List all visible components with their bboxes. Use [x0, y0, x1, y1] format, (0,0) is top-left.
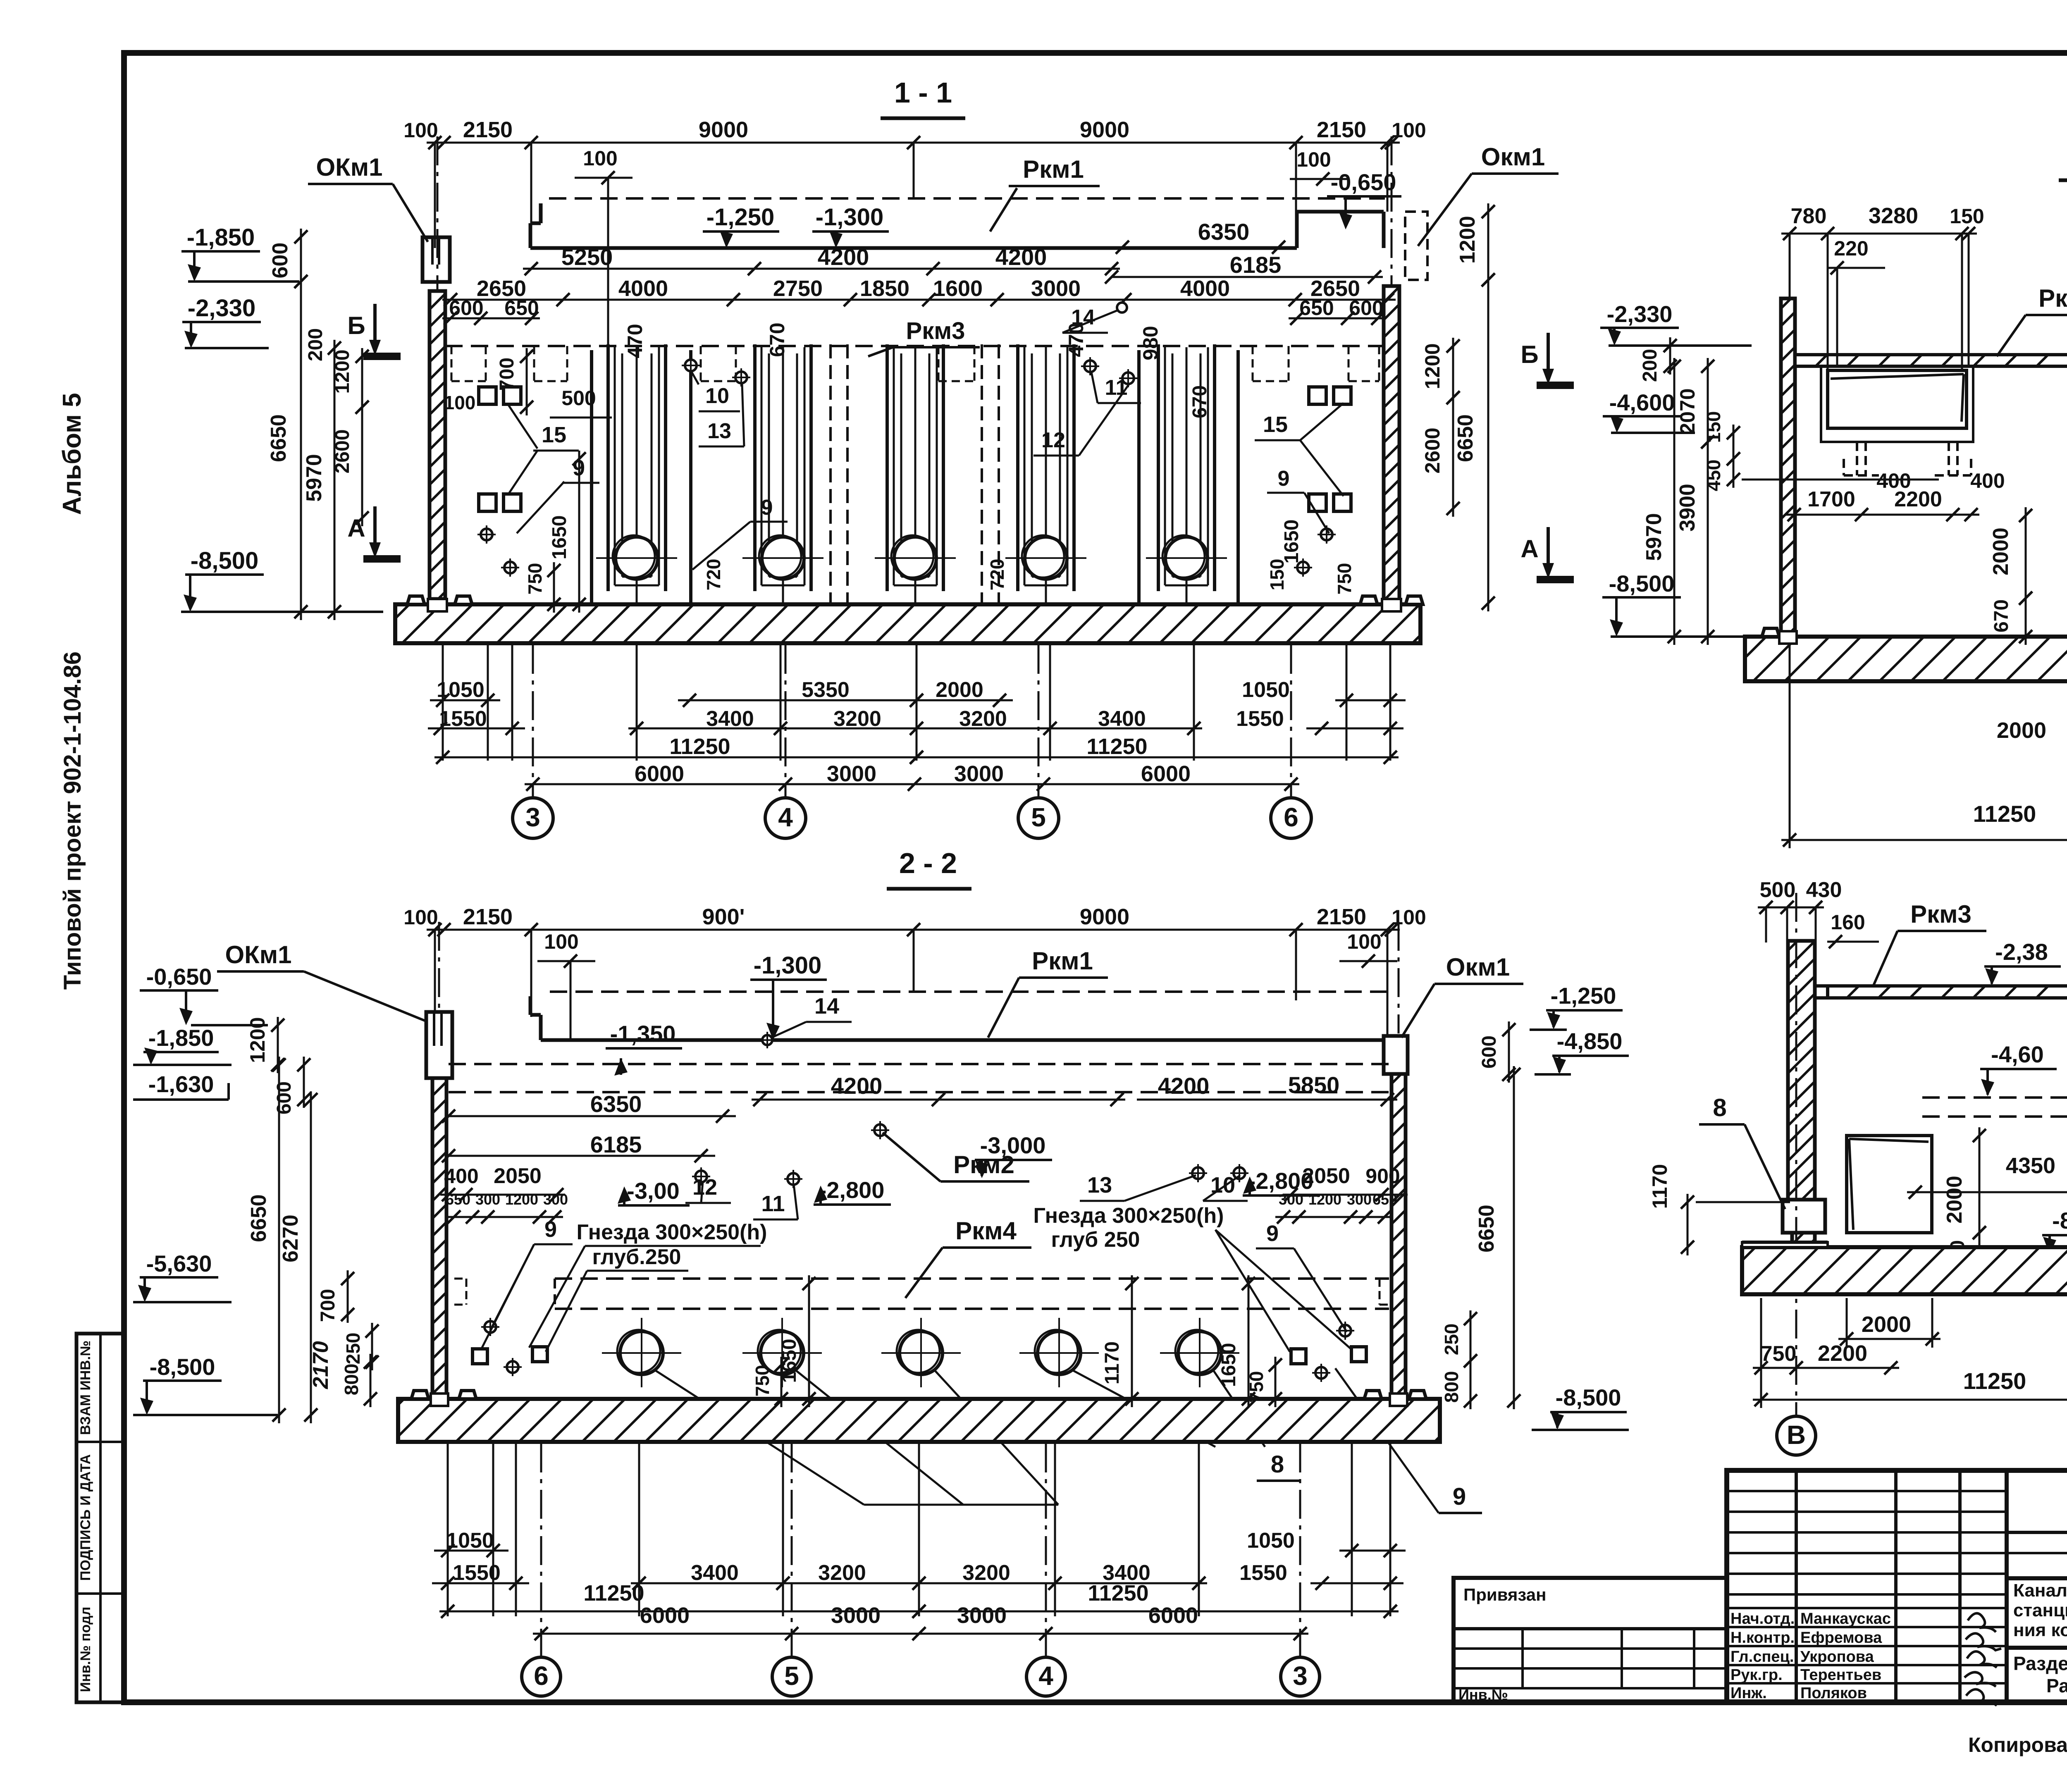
svg-text:2 - 2: 2 - 2 — [899, 847, 957, 879]
svg-text:2200: 2200 — [1818, 1341, 1867, 1366]
section 1-1 left wall axis — [437, 136, 439, 289]
section 2-2 roof slab bottom line — [541, 1038, 1384, 1042]
svg-text:750: 750 — [1246, 1371, 1267, 1403]
svg-text:-1,250: -1,250 — [1551, 983, 1616, 1009]
extension lines top — [434, 143, 436, 248]
svg-text:11: 11 — [761, 1191, 785, 1216]
svg-text:-8,500: -8,500 — [191, 547, 258, 574]
svg-text:5350: 5350 — [802, 678, 850, 702]
below-slab extension lines 2-2 — [447, 1444, 449, 1616]
svg-text:6650: 6650 — [1454, 414, 1477, 462]
anchor circles left — [481, 529, 492, 540]
svg-text:650: 650 — [1372, 1191, 1397, 1208]
svg-text:100: 100 — [1392, 906, 1426, 929]
wall foot notches — [428, 599, 447, 611]
svg-text:6650: 6650 — [267, 414, 291, 462]
section 1-1 left wall cap — [422, 237, 450, 282]
svg-text:4000: 4000 — [618, 276, 668, 301]
svg-text:100: 100 — [403, 119, 438, 142]
svg-text:9: 9 — [761, 496, 773, 520]
svg-text:2150: 2150 — [463, 117, 513, 142]
svg-text:Окм1: Окм1 — [1446, 953, 1510, 981]
svg-text:780: 780 — [1791, 204, 1827, 228]
4-4 slab left part under wall — [1742, 1242, 1828, 1247]
svg-text:11250: 11250 — [583, 1581, 644, 1606]
4-4 bottom slab (hatched) — [1742, 1247, 2067, 1294]
section 2-2 roof slab Ркм1 dashed top — [550, 990, 1389, 993]
svg-text:600: 600 — [268, 243, 292, 279]
svg-text:6000: 6000 — [640, 1603, 690, 1628]
small dashed pocket right wall — [1380, 1278, 1392, 1280]
svg-text:750: 750 — [1334, 563, 1355, 595]
svg-text:100: 100 — [1347, 930, 1381, 953]
svg-text:6350: 6350 — [590, 1091, 642, 1117]
svg-text:Гл.спец.: Гл.спец. — [1730, 1648, 1794, 1666]
svg-text:Укропова: Укропова — [1800, 1648, 1874, 1666]
svg-text:3400: 3400 — [691, 1561, 739, 1585]
title block outer — [1727, 1470, 2067, 1702]
svg-text:В: В — [1787, 1420, 1806, 1450]
svg-text:900: 900 — [1365, 1164, 1400, 1188]
section 2-2 hidden line -1,630 — [449, 1091, 1389, 1093]
svg-text:4350: 4350 — [2006, 1153, 2055, 1178]
section 1-1 interior ceiling dashed line — [445, 345, 1384, 347]
dim row 2650 4000 2750 1850 1600 3000 4000 2650 — [442, 299, 1396, 301]
3-3 inlet neck dashed — [1856, 442, 1858, 475]
svg-text:Ркм4: Ркм4 — [955, 1217, 1017, 1245]
svg-text:150: 150 — [1703, 411, 1724, 443]
svg-text:2000: 2000 — [936, 678, 983, 702]
svg-text:ния коллектора-4.0 m: ния коллектора-4.0 m — [2013, 1620, 2067, 1640]
section 4-4 left wall lower part — [1792, 1233, 1815, 1254]
svg-text:1550: 1550 — [453, 1561, 501, 1585]
svg-text:-1,630: -1,630 — [148, 1071, 214, 1097]
svg-text:Разделительная стена СТм1.: Разделительная стена СТм1. — [2013, 1653, 2067, 1674]
svg-text:100: 100 — [403, 906, 438, 929]
svg-text:4200: 4200 — [818, 244, 869, 270]
dim row 3400 3200 3200 3400 — [628, 728, 1202, 730]
svg-text:-8,50: -8,50 — [2052, 1207, 2067, 1234]
section 3-3 left wall (hatched) — [1781, 298, 1795, 634]
svg-text:5970: 5970 — [302, 454, 326, 502]
svg-text:1200: 1200 — [1421, 343, 1444, 389]
svg-text:2150: 2150 — [1317, 117, 1366, 142]
svg-text:800: 800 — [1441, 1371, 1462, 1403]
svg-text:11250: 11250 — [1973, 801, 2036, 827]
svg-text:3200: 3200 — [818, 1561, 866, 1585]
wall foot notches 2-2 — [431, 1394, 448, 1406]
left margin boxes — [76, 1334, 124, 1702]
svg-text:2750: 2750 — [773, 276, 823, 301]
svg-text:6: 6 — [534, 1661, 549, 1691]
section 2-2 left wall axis — [438, 922, 440, 1011]
axis 6 — [1271, 798, 1311, 838]
svg-text:ВЗАМ ИНВ.№: ВЗАМ ИНВ.№ — [78, 1341, 93, 1435]
section 4-4 roof slab Ркм3 (hatched) — [1828, 986, 2067, 998]
gnezda squares 2-2 left — [473, 1349, 487, 1364]
svg-text:1170: 1170 — [1101, 1341, 1123, 1384]
right region rows — [2007, 1531, 2067, 1534]
svg-text:11250: 11250 — [1086, 734, 1147, 759]
axis 4 — [765, 798, 806, 838]
svg-text:2600: 2600 — [332, 430, 353, 474]
ceiling pockets (dashed) — [451, 346, 453, 381]
svg-text:10: 10 — [705, 384, 729, 408]
svg-text:-1,850: -1,850 — [187, 224, 255, 251]
svg-text:6000: 6000 — [1141, 761, 1191, 786]
svg-text:9: 9 — [1266, 1221, 1279, 1246]
svg-text:12: 12 — [692, 1175, 717, 1200]
svg-text:1050: 1050 — [1247, 1529, 1295, 1553]
axis dim row (2-2) — [533, 1633, 1308, 1635]
svg-text:6185: 6185 — [590, 1131, 642, 1157]
section 4-4 left wall (hatched) — [1788, 941, 1815, 1200]
svg-text:-3,00: -3,00 — [627, 1178, 680, 1204]
svg-text:-0,650: -0,650 — [146, 964, 212, 990]
svg-text:100: 100 — [583, 147, 617, 170]
axis circles 3 4 5 6 — [532, 784, 534, 798]
svg-text:250: 250 — [342, 1333, 364, 1365]
3-3 bottom slab (hatched) — [1745, 637, 2067, 681]
axis 3 — [513, 798, 553, 838]
slab key bumps — [407, 596, 425, 604]
gnezda squares left — [479, 387, 496, 404]
gnezda squares right — [1309, 387, 1326, 404]
svg-text:9: 9 — [1278, 467, 1290, 491]
svg-text:ПОДПИСЬ И ДАТА: ПОДПИСЬ И ДАТА — [78, 1454, 93, 1581]
small circles mid 2-2 — [874, 1124, 886, 1136]
svg-text:2600: 2600 — [1421, 427, 1444, 473]
svg-text:2000: 2000 — [1989, 527, 2013, 575]
svg-text:Нач.отд.: Нач.отд. — [1730, 1610, 1795, 1627]
svg-text:14: 14 — [814, 994, 839, 1019]
section 1-1 roof right end block — [1295, 212, 1299, 248]
svg-text:3: 3 — [1293, 1661, 1308, 1691]
svg-text:Типовой проект 902-1-104.8: Типовой проект 902-1-104.86 — [59, 651, 86, 990]
svg-text:1650: 1650 — [1281, 520, 1303, 564]
svg-text:1050: 1050 — [446, 1529, 494, 1553]
svg-text:-5,630: -5,630 — [146, 1250, 212, 1277]
svg-text:Привязан: Привязан — [1463, 1585, 1546, 1604]
svg-text:4200: 4200 — [831, 1073, 883, 1099]
svg-text:2150: 2150 — [463, 904, 513, 929]
svg-text:4200: 4200 — [995, 244, 1047, 270]
svg-text:3200: 3200 — [833, 707, 881, 731]
svg-text:160: 160 — [1831, 911, 1865, 934]
axis extension dash-dot 2-2 — [540, 1444, 542, 1658]
svg-text:-4,60: -4,60 — [1991, 1041, 2044, 1067]
svg-text:600: 600 — [1349, 296, 1383, 320]
svg-text:Гнезда 300×250(h): Гнезда 300×250(h) — [576, 1220, 767, 1244]
section 2-2 right wall (hatched) — [1392, 1074, 1406, 1397]
svg-text:250: 250 — [1441, 1324, 1462, 1355]
svg-text:-0,650: -0,650 — [1331, 169, 1396, 195]
svg-text:720: 720 — [703, 559, 724, 591]
svg-text:2150: 2150 — [1317, 904, 1366, 929]
leader lines from pipes to label 8 — [655, 1370, 864, 1505]
svg-text:1650: 1650 — [1218, 1343, 1240, 1387]
svg-text:980: 980 — [1139, 326, 1162, 360]
dim row 3400 3200 3200 3400 (2-2) — [631, 1582, 1207, 1584]
svg-text:-1,350: -1,350 — [610, 1021, 676, 1047]
svg-text:-4,600: -4,600 — [1609, 389, 1675, 415]
svg-text:Инв.№: Инв.№ — [1458, 1686, 1508, 1703]
svg-text:Б: Б — [1520, 341, 1538, 368]
svg-text:9000: 9000 — [1080, 117, 1129, 142]
svg-text:3000: 3000 — [827, 761, 876, 786]
svg-text:1050: 1050 — [1242, 678, 1290, 702]
channel at x 2462 — [1016, 344, 1019, 591]
channel at x 1471 — [606, 344, 610, 591]
channel at x 2146 — [886, 344, 889, 591]
section 4-4 left wall axis — [1795, 893, 1797, 1416]
svg-text:2200: 2200 — [1894, 487, 1942, 511]
Привязан box — [1454, 1578, 1727, 1702]
slab key bumps 2-2 — [411, 1391, 429, 1399]
svg-text:15: 15 — [542, 422, 566, 447]
svg-text:4000: 4000 — [1180, 276, 1230, 301]
pipe circle at 2562 — [1038, 1331, 1081, 1374]
svg-text:5: 5 — [1031, 802, 1046, 832]
dim row 600 650 left — [442, 317, 540, 320]
svg-text:600: 600 — [449, 296, 483, 320]
svg-text:11250: 11250 — [669, 734, 730, 759]
pipe circle at 2902 — [1178, 1331, 1221, 1374]
3-3 inlet solid box — [1828, 370, 1967, 428]
svg-text:Ркм3: Ркм3 — [2038, 284, 2067, 312]
partition wall edges — [590, 350, 593, 604]
svg-text:4: 4 — [778, 802, 793, 832]
svg-text:1200: 1200 — [505, 1191, 538, 1208]
4-4 dashed level lines — [1922, 1096, 2067, 1099]
svg-text:3200: 3200 — [962, 1561, 1010, 1585]
svg-text:150: 150 — [1950, 205, 1984, 228]
svg-text:Гнезда 300×250(h): Гнезда 300×250(h) — [1033, 1204, 1224, 1228]
svg-text:3280: 3280 — [1869, 203, 1918, 228]
svg-text:750: 750 — [752, 1365, 773, 1397]
section 2-2 bottom slab (hatched) — [398, 1399, 1440, 1442]
svg-text:Инв.№ подл: Инв.№ подл — [78, 1607, 93, 1692]
svg-text:470: 470 — [1065, 322, 1088, 357]
svg-text:-2,800: -2,800 — [819, 1177, 885, 1203]
svg-text:-1,850: -1,850 — [148, 1025, 214, 1051]
svg-text:Ркм1: Ркм1 — [1023, 155, 1084, 183]
svg-text:Ркм1: Ркм1 — [1032, 947, 1093, 975]
section 2-2 right wall cap — [1384, 1036, 1408, 1074]
svg-text:3400: 3400 — [706, 707, 754, 731]
4-4 unit 8 block — [1783, 1200, 1825, 1233]
svg-text:600: 600 — [273, 1081, 295, 1114]
axis circle В (4-4) — [1777, 1416, 1816, 1455]
svg-text:Ркм3: Ркм3 — [1910, 900, 1972, 928]
svg-text:Б: Б — [347, 312, 365, 339]
svg-text:Поляков: Поляков — [1800, 1685, 1867, 1702]
svg-text:720: 720 — [986, 559, 1008, 591]
svg-text:9000: 9000 — [699, 117, 748, 142]
svg-text:2000: 2000 — [1862, 1312, 1911, 1337]
svg-text:300: 300 — [1347, 1191, 1372, 1208]
svg-text:-8,500: -8,500 — [1556, 1384, 1621, 1410]
hidden partition dashed pair — [829, 344, 832, 604]
svg-text:1600: 1600 — [933, 276, 983, 301]
svg-text:-8,500: -8,500 — [1609, 570, 1675, 597]
svg-text:1200: 1200 — [1308, 1191, 1341, 1208]
section 2-2 left wall cap — [426, 1012, 452, 1078]
svg-text:3000: 3000 — [957, 1603, 1007, 1628]
title block vertical dividers left grid — [1795, 1470, 1798, 1702]
section 1-1 Окм1 right panel dashed — [1405, 212, 1427, 280]
svg-text:1550: 1550 — [1236, 707, 1284, 731]
title block small rows — [1727, 1490, 2007, 1492]
svg-text:11250: 11250 — [1088, 1581, 1148, 1606]
dim row 650 600 right — [1289, 317, 1386, 320]
section 1-1 right wall axis — [1391, 136, 1393, 285]
svg-text:100: 100 — [544, 930, 578, 953]
svg-text:Ркм3: Ркм3 — [906, 317, 965, 344]
svg-text:2050: 2050 — [1302, 1164, 1350, 1188]
svg-text:Н.контр.: Н.контр. — [1730, 1629, 1795, 1646]
svg-text:300: 300 — [543, 1191, 568, 1208]
svg-text:15: 15 — [1263, 412, 1288, 437]
svg-text:станция при глубине заложе-: станция при глубине заложе- — [2013, 1600, 2067, 1620]
svg-text:400: 400 — [444, 1164, 478, 1188]
svg-text:650: 650 — [446, 1191, 470, 1208]
svg-text:6185: 6185 — [1230, 252, 1282, 278]
svg-text:1170: 1170 — [1648, 1164, 1671, 1209]
svg-text:-1,300: -1,300 — [816, 204, 883, 231]
pipe circle at 2228 — [900, 1331, 943, 1374]
svg-text:670: 670 — [1189, 385, 1211, 418]
svg-text:750: 750 — [524, 563, 546, 595]
svg-text:Терентьев: Терентьев — [1800, 1666, 1881, 1684]
svg-text:3200: 3200 — [959, 707, 1007, 731]
svg-text:430: 430 — [1806, 878, 1842, 902]
svg-text:8: 8 — [1271, 1451, 1284, 1478]
svg-text:-3,000: -3,000 — [980, 1132, 1046, 1158]
dims 500 430 160 (4-4) — [1758, 907, 1824, 909]
svg-text:-8,500: -8,500 — [150, 1354, 215, 1380]
svg-text:800: 800 — [341, 1364, 362, 1396]
svg-text:400: 400 — [1970, 469, 2005, 492]
svg-text:А: А — [1520, 535, 1538, 563]
svg-text:4: 4 — [1038, 1661, 1053, 1691]
anchor circles right — [1321, 529, 1332, 540]
svg-text:-1,250: -1,250 — [707, 204, 774, 231]
section 1-1 right wall (hatched) — [1384, 286, 1399, 603]
svg-text:500: 500 — [561, 387, 596, 410]
svg-text:5850: 5850 — [1288, 1072, 1340, 1098]
svg-text:700: 700 — [496, 358, 518, 391]
svg-text:470: 470 — [623, 324, 647, 358]
svg-text:13: 13 — [1087, 1173, 1112, 1198]
svg-text:-2,330: -2,330 — [1607, 301, 1673, 327]
svg-text:100: 100 — [1392, 119, 1426, 142]
svg-text:11250: 11250 — [1963, 1368, 2026, 1394]
svg-text:6650: 6650 — [1475, 1205, 1499, 1253]
svg-text:-2,330: -2,330 — [188, 295, 255, 322]
svg-text:1200: 1200 — [1456, 216, 1480, 264]
svg-text:Ефремова: Ефремова — [1800, 1629, 1882, 1646]
svg-text:-2,38: -2,38 — [1995, 939, 2048, 965]
small circles top — [685, 360, 697, 371]
dim chain 1-1 top: 100 2150 9000 9000 2150 100 — [427, 142, 1400, 144]
svg-text:200: 200 — [1639, 349, 1661, 382]
svg-text:3000: 3000 — [1031, 276, 1081, 301]
channel at x 1826 — [753, 344, 757, 591]
dim row 5250 4200 4200 6185 — [523, 268, 1120, 270]
signatures — [1968, 1613, 1996, 1632]
svg-text:2070: 2070 — [1676, 388, 1699, 434]
3-3 inlet dashed box — [1821, 366, 1973, 442]
svg-text:220: 220 — [1834, 237, 1868, 260]
svg-text:ОКм1: ОКм1 — [316, 153, 382, 181]
svg-text:Рук.гр.: Рук.гр. — [1730, 1666, 1783, 1684]
svg-text:Альбом 5: Альбом 5 — [58, 393, 86, 515]
svg-text:1650: 1650 — [549, 515, 570, 560]
svg-text:100: 100 — [1296, 148, 1331, 171]
svg-text:2000: 2000 — [1943, 1176, 1967, 1224]
svg-text:200: 200 — [305, 328, 327, 361]
4-4 left interior box — [1847, 1136, 1932, 1233]
small dashed pocket left wall — [454, 1278, 466, 1280]
extension lines 2-2 top — [434, 930, 436, 1013]
svg-text:1 - 1: 1 - 1 — [894, 76, 952, 109]
svg-text:100: 100 — [444, 392, 476, 413]
svg-text:3400: 3400 — [1098, 707, 1146, 731]
axis extension dash-dot — [532, 645, 534, 798]
svg-text:Канализационная насосная: Канализационная насосная — [2013, 1580, 2067, 1601]
svg-text:-1,300: -1,300 — [754, 952, 821, 979]
svg-text:Инж.: Инж. — [1730, 1685, 1767, 1702]
dim chain 2-2 top — [427, 929, 1400, 931]
svg-text:8: 8 — [1713, 1094, 1726, 1121]
section 2-2 right wall axis — [1398, 922, 1400, 1033]
svg-text:900': 900' — [702, 904, 745, 929]
section 1-1 roof slab Ркм1 (dashed) — [549, 197, 1385, 200]
svg-text:6270: 6270 — [279, 1215, 303, 1262]
svg-text:1200: 1200 — [246, 1017, 269, 1063]
svg-text:3000: 3000 — [954, 761, 1004, 786]
svg-text:9: 9 — [1453, 1483, 1466, 1510]
svg-text:Разрезы 1-1 ÷ 4-4.: Разрезы 1-1 ÷ 4-4. — [2046, 1675, 2067, 1697]
dim row 780 3280 150 (3-3) — [1781, 233, 1977, 235]
svg-text:9000: 9000 — [1080, 904, 1129, 929]
svg-text:5: 5 — [784, 1661, 799, 1691]
svg-text:500: 500 — [1760, 878, 1796, 902]
svg-text:3000: 3000 — [831, 1603, 881, 1628]
svg-text:2170: 2170 — [309, 1341, 333, 1389]
svg-text:1550: 1550 — [439, 707, 487, 731]
svg-text:глуб.250: глуб.250 — [592, 1245, 681, 1269]
section 2-2 Ркм4 dashed band — [555, 1277, 1389, 1280]
svg-text:6350: 6350 — [1198, 219, 1250, 245]
axis dim row 6000 3000 3000 6000 — [525, 783, 1299, 785]
svg-text:А: А — [347, 514, 365, 542]
svg-text:6: 6 — [1284, 802, 1298, 832]
svg-text:1550: 1550 — [1239, 1561, 1287, 1585]
svg-text:1200: 1200 — [332, 350, 353, 394]
axis 5 — [1018, 798, 1059, 838]
svg-text:650: 650 — [1299, 296, 1334, 320]
svg-text:2000: 2000 — [1997, 718, 2046, 743]
svg-text:6000: 6000 — [635, 761, 684, 786]
svg-text:-4,850: -4,850 — [1557, 1028, 1623, 1054]
section 2-2 hidden line -1,350 — [449, 1063, 1389, 1065]
anchor circles 2-2 right — [1339, 1325, 1351, 1336]
svg-text:670: 670 — [766, 322, 789, 357]
slab bumps 3-3 — [1762, 628, 1779, 637]
svg-text:700: 700 — [317, 1289, 339, 1322]
